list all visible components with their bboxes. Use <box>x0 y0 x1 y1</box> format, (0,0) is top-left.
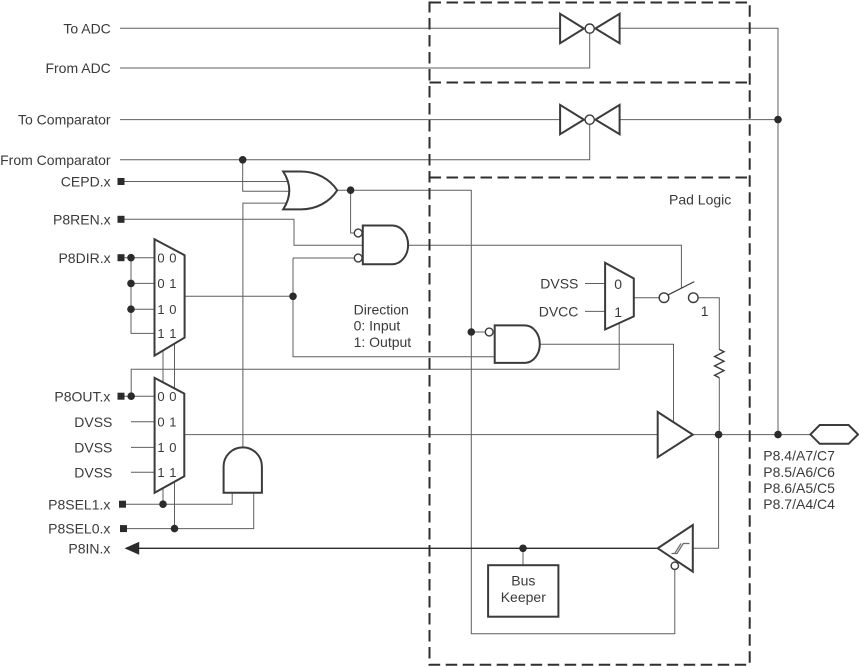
svg-text:0: 0 <box>614 276 622 292</box>
svg-text:1: 1 <box>157 440 164 455</box>
wire P8DIR.x stub to mux M1 input 00 <box>125 257 155 259</box>
wire P8SEL0.x to AND U3 input <box>125 490 254 529</box>
label switch position 1 <box>701 303 709 319</box>
wire OR U1 output right, down, to schmitt enable bubble <box>337 190 675 634</box>
wire DVCC stub to mux M3 input 1 <box>585 310 605 312</box>
label mux M1 row 11 <box>157 326 176 341</box>
node pad vertical junction <box>774 431 782 439</box>
wire AND U4 output to buffer U5 enable <box>540 344 674 423</box>
dashed separator ADC box bottom <box>430 82 750 84</box>
bus keeper block <box>488 565 558 617</box>
wire switch to resistor R1 top <box>698 298 719 350</box>
wire DVSS stub mux M2 input 11 <box>131 471 155 473</box>
svg-text:P8.5/A6/C6: P8.5/A6/C6 <box>763 464 835 480</box>
label DVSS mux M3 <box>540 276 578 292</box>
wire transmission gate T1 output to pad vertical <box>620 28 778 434</box>
label From ADC <box>45 60 110 76</box>
node P8SEL0 select junction <box>171 525 179 533</box>
svg-text:To ADC: To ADC <box>63 20 110 36</box>
mux M3 (DVSS/DVCC) <box>605 263 634 330</box>
label P8OUT.x <box>54 388 110 404</box>
svg-text:P8IN.x: P8IN.x <box>68 540 110 556</box>
label mux M1 row 10 <box>157 302 176 317</box>
svg-text:DVSS: DVSS <box>74 440 112 456</box>
svg-text:0: 0 <box>169 302 176 317</box>
label mux M2 row 00 <box>157 389 176 404</box>
mux M2 (P8OUT) <box>155 378 185 493</box>
svg-text:1: 1 <box>701 303 709 319</box>
svg-text:0: 0 <box>169 440 176 455</box>
svg-text:P8SEL1.x: P8SEL1.x <box>48 496 110 512</box>
node A From Comparator junction <box>239 156 247 164</box>
svg-text:From Comparator: From Comparator <box>0 152 111 168</box>
label P8SEL1.x <box>48 496 110 512</box>
nand U2 (3-input AND, bubbled inputs) <box>354 225 408 264</box>
node P8OUT junction <box>127 392 135 400</box>
and-gate U3 (vertical, P8SEL) <box>224 447 262 492</box>
node OR output <box>347 186 355 194</box>
wire From ADC to transmission gate control <box>120 33 590 68</box>
wire pad node down to schmitt U6 input <box>693 435 719 549</box>
svg-text:0: 0 <box>169 389 176 404</box>
dashed separator Comparator box bottom / Pad Logic top <box>430 177 750 179</box>
svg-text:DVSS: DVSS <box>74 414 112 430</box>
svg-text:Keeper: Keeper <box>501 589 546 605</box>
terminal square P8SEL1.x <box>119 501 126 508</box>
label mux M1 row 01 <box>157 276 176 291</box>
svg-text:DVSS: DVSS <box>540 276 578 292</box>
wire To ADC <box>120 27 560 29</box>
svg-text:1: 1 <box>169 465 176 480</box>
wire P8REN.x to AND U2 middle input <box>125 219 365 245</box>
dashed boundary box outer <box>430 3 750 665</box>
terminal square P8REN.x <box>118 216 125 223</box>
wire mux M3 output to switch <box>634 297 659 299</box>
wire To Comparator <box>120 119 560 121</box>
wire node A branch to OR input 2 <box>243 160 291 192</box>
wire P8DIR bus verticals and stubs <box>131 258 155 334</box>
wire CEPD.x to OR input 1 <box>125 181 291 183</box>
svg-text:0: 0 <box>157 276 164 291</box>
wire DVSS stub mux M2 input 10 <box>131 446 155 448</box>
wire P8OUT.x stub to mux M2 input 00 <box>125 395 155 397</box>
svg-text:P8.7/A4/C4: P8.7/A4/C4 <box>763 496 835 512</box>
node P8DIR bus 3 <box>127 305 135 313</box>
wire mux M2 output to output buffer U5 <box>184 434 657 436</box>
svg-text:1: 1 <box>169 326 176 341</box>
label Direction note <box>354 301 412 350</box>
label DVSS 01 <box>74 414 112 430</box>
label mux M3 input 0 <box>614 276 622 292</box>
label From Comparator <box>0 152 111 168</box>
node P8DIR bus 1 <box>127 254 135 262</box>
node P8SEL1 select junction <box>159 500 167 508</box>
wire bus keeper stub <box>522 548 524 565</box>
svg-text:P8SEL0.x: P8SEL0.x <box>48 521 110 537</box>
svg-text:P8.6/A5/C5: P8.6/A5/C5 <box>763 480 835 496</box>
label mux M3 input 1 <box>614 304 622 320</box>
wire select line S1 between mux M1 and mux M2 <box>162 351 164 382</box>
wire AND U3 output up to OR input 3 <box>243 203 291 447</box>
transmission gate T2 (Comparator) <box>560 105 620 134</box>
node B mux M1 output <box>289 293 297 301</box>
svg-text:0: 0 <box>157 251 164 266</box>
pin symbol P8.x <box>810 425 858 444</box>
label mux M1 row 00 <box>157 251 176 266</box>
wire node B riser down to AND U4 bottom input <box>293 258 496 357</box>
svg-text:1: 1 <box>157 326 164 341</box>
svg-text:From ADC: From ADC <box>45 60 110 76</box>
and-gate U4 (direction) <box>485 325 539 363</box>
wire resistor R1 bottom to pad node <box>718 378 720 435</box>
svg-text:DVCC: DVCC <box>539 304 579 320</box>
label mux M2 row 10 <box>157 440 176 455</box>
arrowhead P8IN.x <box>125 542 140 555</box>
label DVCC mux M3 <box>539 304 579 320</box>
svg-text:P8REN.x: P8REN.x <box>53 211 111 227</box>
svg-text:P8OUT.x: P8OUT.x <box>54 388 110 404</box>
label P8DIR.x <box>58 250 110 266</box>
or-gate U1 <box>283 172 337 210</box>
label CEPD.x <box>61 174 111 190</box>
svg-text:Pad Logic: Pad Logic <box>669 191 731 207</box>
wire DVSS stub mux M2 input 01 <box>131 421 155 423</box>
label DVSS 10 <box>74 440 112 456</box>
wire P8IN.x from schmitt U6 output <box>139 547 658 549</box>
label mux M2 row 01 <box>157 415 176 430</box>
label Pad Logic <box>669 191 731 207</box>
svg-text:DVSS: DVSS <box>74 464 112 480</box>
svg-text:1: 1 <box>169 415 176 430</box>
wire AND U2 output to switch control <box>408 245 681 288</box>
label P8SEL0.x <box>48 521 110 537</box>
wire node B riser up to AND U2 bottom bubble <box>293 257 354 259</box>
wire P8OUT bus up to mux M3 select <box>131 323 619 396</box>
node comparator gate junction <box>774 116 782 124</box>
wire DVSS stub to mux M3 input 0 <box>585 283 605 285</box>
label To Comparator <box>18 112 111 128</box>
terminal square P8OUT.x <box>118 393 125 400</box>
label mux M2 row 11 <box>157 465 176 480</box>
mux M1 (P8DIR) <box>155 239 185 355</box>
svg-text:Direction: Direction <box>354 301 409 317</box>
node bus keeper junction <box>519 545 527 553</box>
wire select line S1 below mux M2 <box>162 488 164 504</box>
node resistor pad junction <box>715 431 723 439</box>
wire transmission gate T2 output to pad vertical <box>620 119 778 121</box>
switch SW1 <box>659 282 698 303</box>
label Bus Keeper <box>501 573 546 605</box>
wire mux M1 output to node B <box>185 295 293 297</box>
node C AND U4 top input <box>468 328 476 336</box>
svg-text:1: 1 <box>157 302 164 317</box>
svg-text:1: 1 <box>157 465 164 480</box>
svg-text:P8DIR.x: P8DIR.x <box>58 250 110 266</box>
terminal square P8DIR.x <box>118 254 125 261</box>
svg-text:CEPD.x: CEPD.x <box>61 174 111 190</box>
svg-text:0: Input: 0: Input <box>354 318 401 334</box>
transmission gate T1 (ADC) <box>560 14 620 43</box>
label DVSS 11 <box>74 464 112 480</box>
svg-text:1: 1 <box>614 304 622 320</box>
svg-text:1: Output: 1: Output <box>354 334 412 350</box>
node P8DIR bus 2 <box>127 280 135 288</box>
schmitt trigger U6 <box>658 525 693 572</box>
label To ADC <box>63 20 110 36</box>
svg-text:1: 1 <box>169 276 176 291</box>
wire select line S2 between mux M1 and mux M2 <box>174 344 176 389</box>
svg-text:0: 0 <box>169 251 176 266</box>
label pin names <box>763 448 835 513</box>
label P8REN.x <box>53 211 111 227</box>
terminal square CEPD.x <box>118 178 125 185</box>
wire OR output node down to AND U2 top bubble <box>351 190 355 233</box>
wire From Comparator to transmission gate control <box>120 124 590 159</box>
resistor R1 <box>715 349 724 377</box>
output buffer U5 <box>658 412 693 457</box>
svg-text:0: 0 <box>157 389 164 404</box>
wire node C to AND U4 top bubble <box>471 331 485 333</box>
svg-text:0: 0 <box>157 415 164 430</box>
svg-text:To Comparator: To Comparator <box>18 112 111 128</box>
svg-text:P8.4/A7/C7: P8.4/A7/C7 <box>763 448 835 464</box>
wire pad line buffer to pin <box>693 434 811 436</box>
wire P8SEL1.x to AND U3 input <box>125 490 233 504</box>
svg-text:Bus: Bus <box>511 573 535 589</box>
wire select line S2 below mux M2 <box>174 482 176 529</box>
label P8IN.x <box>68 540 110 556</box>
terminal square P8SEL0.x <box>120 525 127 532</box>
